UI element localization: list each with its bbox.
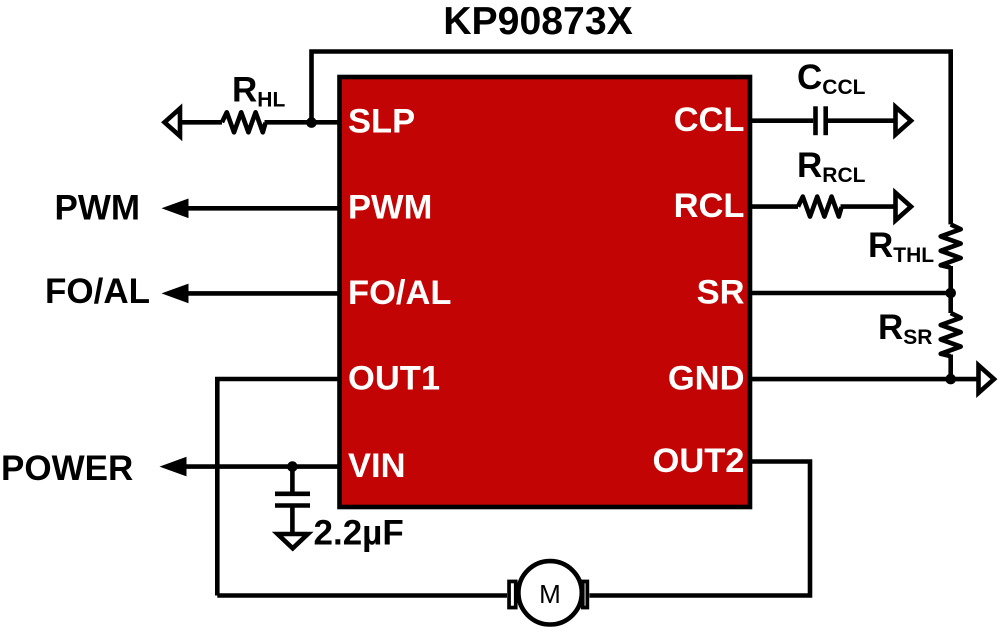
resistor RRCL	[798, 197, 842, 217]
wire bottom from OUT1 to motor	[217, 593, 507, 598]
ground symbol	[278, 534, 308, 548]
svg-text:KP90873X: KP90873X	[443, 0, 633, 43]
capacitor C1 2.2uF stem top	[290, 467, 295, 494]
svg-text:RRCL: RRCL	[797, 146, 866, 187]
wire SR node to RSR	[948, 293, 953, 313]
svg-text:POWER: POWER	[1, 449, 133, 488]
wire CCL pin	[750, 118, 813, 123]
svg-text:2.2µF: 2.2µF	[314, 514, 404, 553]
svg-text:CCCL: CCCL	[797, 58, 866, 99]
svg-text:PWM: PWM	[55, 189, 141, 228]
arrow POWER (filled, left)	[160, 457, 187, 477]
arrow PWM (filled, left)	[162, 199, 189, 219]
wire GND pin	[750, 377, 980, 382]
capacitor C1 stem bottom	[290, 506, 295, 535]
wire SLP pin	[168, 120, 222, 125]
node SR junction	[945, 288, 956, 299]
wire PWM pin	[170, 206, 340, 211]
connector arrow GND (open, right)	[979, 365, 995, 393]
svg-text:SLP: SLP	[348, 103, 415, 141]
wire FO/AL pin	[170, 291, 340, 296]
connector arrow RCL (open, right)	[896, 193, 912, 221]
resistor RHL	[222, 112, 266, 132]
svg-text:VIN: VIN	[348, 447, 406, 485]
node VIN junction	[287, 461, 298, 472]
wire OUT2 to motor	[590, 462, 811, 596]
node SLP junction	[306, 117, 317, 128]
wire RTHL bottom to SR node	[948, 266, 953, 293]
svg-text:OUT1: OUT1	[348, 359, 440, 397]
wire RCL pin	[750, 204, 798, 209]
wire OUT1 to bottom	[217, 379, 340, 596]
wire VIN / POWER	[167, 464, 340, 469]
svg-text:PWM: PWM	[348, 189, 432, 227]
svg-text:RCL: RCL	[674, 187, 745, 225]
IC U1 KP90873X body	[340, 77, 751, 507]
svg-text:M: M	[539, 579, 561, 609]
svg-text:RTHL: RTHL	[868, 226, 934, 267]
wire SR pin	[750, 291, 951, 296]
svg-text:RSR: RSR	[878, 308, 932, 349]
motor brush right	[583, 581, 588, 607]
arrow FO/AL (filled, left)	[162, 284, 189, 304]
motor brush left	[509, 581, 516, 607]
svg-text:OUT2: OUT2	[652, 442, 744, 480]
svg-text:SR: SR	[697, 273, 745, 311]
connector arrow CCL (open, right)	[896, 107, 912, 135]
capacitor CCCL plates	[813, 106, 818, 135]
wire CCL out	[828, 118, 897, 123]
svg-text:FO/AL: FO/AL	[348, 274, 451, 312]
node GND junction	[945, 374, 956, 385]
svg-text:CCL: CCL	[674, 101, 745, 139]
svg-text:RHL: RHL	[232, 71, 285, 112]
resistor RSR (vertical)	[941, 313, 961, 356]
wire SLP to top rail (riser and top run)	[312, 52, 951, 225]
resistor RTHL (vertical)	[941, 224, 961, 267]
motor M1 circle	[518, 561, 581, 624]
capacitor C1 plates	[275, 491, 310, 496]
connector arrow SLP (open, left)	[165, 109, 181, 137]
wire RSR bottom to GND node	[948, 355, 953, 380]
svg-text:FO/AL: FO/AL	[45, 272, 150, 311]
svg-text:GND: GND	[668, 360, 745, 398]
